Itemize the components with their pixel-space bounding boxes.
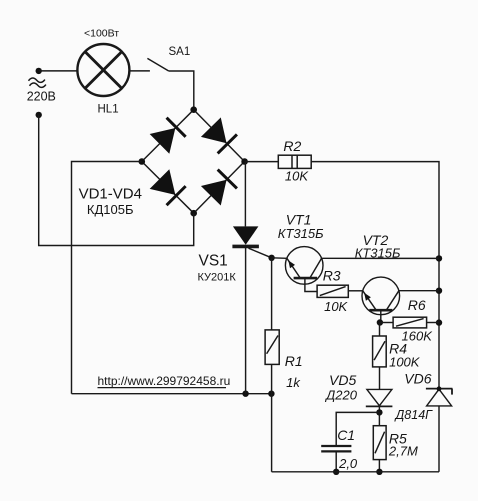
wire: R1 to return rail, down to bottom rail (271, 364, 273, 471)
wire: source bottom down, right, up to bridge bottom (39, 115, 194, 246)
resistor R3 (317, 285, 348, 297)
svg-text:220В: 220В (27, 90, 56, 104)
wire: node to R1 (271, 258, 273, 330)
wire: VS1 cathode down to return rail (245, 246, 247, 393)
wire: R5 to bottom rail (378, 460, 380, 472)
zener VD6 (427, 389, 452, 406)
svg-text:C1: C1 (337, 427, 355, 443)
wire: right rail VT1-collector node to VT2-collector node (438, 258, 440, 290)
node: source bottom terminal (36, 112, 42, 118)
wire: arm top-right (194, 110, 245, 162)
node: source top terminal (36, 68, 42, 74)
capacitor C1 (336, 412, 379, 446)
lamp HL1 (77, 44, 129, 96)
switch SA1 blade (147, 58, 168, 71)
wire: VD6 anode down to bottom rail corner (438, 406, 440, 472)
node: VT2 base / R6 / R4 (377, 319, 383, 325)
wire: C1 bottom to bottom rail (335, 451, 337, 471)
diode VD2 (top-right arm) (202, 118, 237, 153)
svg-text:2,0: 2,0 (338, 456, 358, 471)
node: bridge bottom (190, 210, 197, 217)
svg-text:2,7М: 2,7М (388, 444, 418, 459)
diode VD3 (bottom-left arm) (150, 170, 185, 205)
wire: bottom rail (272, 471, 439, 473)
wire: R2 to right rail corner (311, 162, 439, 259)
wire: VT2 base down to node (380, 310, 382, 322)
resistor R4 (379, 323, 381, 337)
wire: VS1 gate (249, 248, 272, 258)
svg-text:R6: R6 (408, 297, 426, 313)
svg-text:10K: 10K (324, 299, 348, 314)
svg-text:1k: 1k (286, 375, 301, 390)
wire: lamp to switch (129, 70, 150, 72)
wire: R6 to rail (427, 322, 439, 324)
wire: VT2 collector to right rail (399, 290, 439, 292)
wire: bridge right to R2 (245, 161, 279, 163)
resistor R5 (378, 412, 380, 425)
svg-text:HL1: HL1 (98, 103, 119, 115)
resistor R1 (265, 330, 279, 365)
wire: R4 to VD5 (379, 367, 381, 390)
wire: bottom return rail (72, 393, 272, 395)
resistor R6 (380, 322, 393, 324)
node: VD5 cathode / C1 / R5 (376, 409, 382, 415)
wire: node to VT1 emitter (272, 257, 287, 260)
wire: arm top-left (142, 110, 194, 162)
wire: arm bottom-left (142, 162, 194, 214)
svg-text:SA1: SA1 (169, 46, 191, 58)
svg-text:VD6: VD6 (404, 371, 431, 387)
node: rail-VT1 collector (436, 255, 442, 261)
node: bridge right (241, 158, 248, 165)
svg-text:R3: R3 (323, 268, 341, 284)
wire: right rail VT2 node to R6 node (438, 291, 440, 323)
node on return rail at VS1 cathode (242, 391, 248, 397)
svg-text:Д814Г: Д814Г (394, 408, 434, 422)
svg-text:http://www.299792458.ru: http://www.299792458.ru (98, 374, 231, 388)
node: C1 bottom (333, 469, 339, 475)
node: rail-VT2 collector (436, 288, 442, 294)
wire: arm bottom-right (194, 162, 245, 214)
transistor VT2 (362, 277, 400, 315)
AC squiggle symbol (29, 78, 45, 82)
diode VD5 (367, 389, 392, 405)
transistor VT1 (285, 247, 323, 285)
node: bridge left (139, 158, 146, 165)
svg-text:VS1: VS1 (199, 252, 228, 269)
node on return rail at R1 (268, 391, 274, 397)
url underline (98, 387, 227, 389)
svg-text:КТ315Б: КТ315Б (278, 226, 324, 241)
svg-text:<100Вт: <100Вт (84, 28, 119, 40)
wire: bridge right node down to VS1 (244, 162, 246, 227)
svg-text:Д220: Д220 (324, 388, 358, 403)
node: rail-R6 (436, 319, 442, 325)
svg-text:КУ201К: КУ201К (198, 272, 237, 284)
node: bridge top (190, 106, 197, 113)
wire: switch to bridge top (169, 71, 194, 110)
svg-text:100K: 100K (389, 354, 421, 369)
svg-text:КД105Б: КД105Б (87, 202, 134, 217)
wire: VT1 base to R3 (305, 278, 317, 291)
wire: right rail R6 node down to VD6 (438, 323, 440, 389)
svg-text:10K: 10K (285, 168, 309, 183)
svg-text:КТ315Б: КТ315Б (355, 246, 401, 261)
svg-text:R2: R2 (283, 138, 301, 154)
wire: source top to lamp (39, 70, 78, 72)
wire: bridge left node to left rail, down to bottom return rail (72, 162, 142, 394)
node: R5 bottom (376, 469, 382, 475)
resistor R2 (278, 155, 311, 168)
svg-text:VD5: VD5 (329, 372, 356, 388)
diode VD1 (top-left arm) (150, 118, 185, 153)
svg-text:VD1-VD4: VD1-VD4 (79, 185, 142, 202)
diode VD4 (bottom-right arm) (202, 170, 237, 205)
wire: R3 to VT2 emitter (348, 290, 362, 292)
node: gate / VT1 emitter / R1 (268, 255, 274, 261)
wire: VT1 collector to right rail (322, 257, 439, 259)
svg-text:R1: R1 (285, 353, 303, 369)
